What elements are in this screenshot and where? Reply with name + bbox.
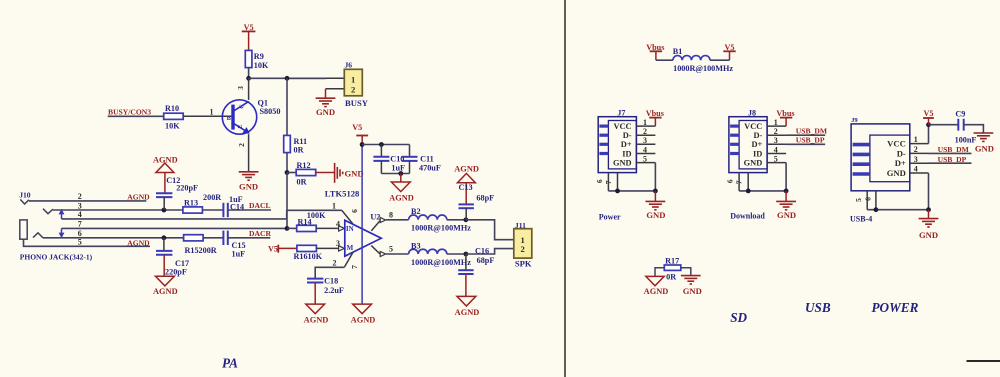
svg-text:R13: R13 — [184, 198, 198, 207]
svg-text:6: 6 — [595, 179, 604, 183]
connector J6 — [344, 69, 362, 96]
svg-text:V5: V5 — [724, 43, 734, 52]
svg-text:M: M — [347, 244, 354, 252]
power port V5 at B1 — [729, 51, 731, 60]
transistor Q1 S8050 — [222, 100, 256, 134]
svg-text:GND: GND — [683, 286, 702, 296]
svg-text:68pF: 68pF — [477, 256, 495, 265]
svg-text:D-: D- — [753, 131, 762, 140]
svg-text:GND: GND — [777, 210, 796, 220]
svg-text:AGND: AGND — [454, 165, 479, 174]
svg-text:2: 2 — [237, 143, 246, 147]
svg-text:J9: J9 — [851, 117, 858, 124]
wire pin 5 to B3 — [386, 253, 409, 255]
svg-text:J8: J8 — [748, 109, 756, 118]
node junction AGND tap — [398, 171, 403, 176]
pin 2 lead of U2 — [344, 253, 353, 268]
svg-text:USB_DP: USB_DP — [938, 155, 967, 164]
node junction C13/B2 — [464, 217, 469, 222]
pin 2 stub of J6 — [326, 88, 345, 90]
svg-text:1: 1 — [332, 201, 336, 210]
svg-text:5: 5 — [389, 245, 393, 254]
wire J8 pin 5 down to rail — [785, 163, 787, 191]
wire R10 to Q1 base — [183, 115, 232, 117]
wire V5 down through amp pin6 pin7 — [361, 145, 363, 304]
pins 1-5 of J8 — [767, 125, 786, 127]
wire J9 bottom rail — [867, 209, 928, 211]
svg-text:AGND: AGND — [153, 287, 178, 296]
svg-text:2: 2 — [78, 192, 82, 201]
svg-text:Download: Download — [730, 211, 765, 220]
wire R17 to AGND — [655, 268, 664, 277]
svg-text:3: 3 — [914, 155, 918, 164]
wire Q1 emitter down to ground — [248, 134, 250, 171]
svg-text:VCC: VCC — [887, 139, 906, 149]
wire USB_DP J9 pin 3 — [929, 162, 972, 164]
svg-text:5: 5 — [854, 198, 863, 202]
wire jack pin 4 to amp pin1 corner — [62, 218, 287, 220]
svg-text:AGND: AGND — [455, 308, 480, 317]
node junction V5/C9 — [926, 122, 931, 127]
wire Q1 collector to node — [248, 78, 250, 100]
svg-text:D+: D+ — [621, 140, 632, 149]
svg-text:R10: R10 — [165, 104, 179, 113]
jack contact pin 2 — [20, 199, 29, 204]
svg-text:GND: GND — [316, 107, 335, 117]
power port AGND below C17 — [156, 276, 175, 286]
svg-text:LTK5128: LTK5128 — [325, 189, 360, 199]
wire C9 to GND — [964, 125, 984, 133]
output lead pin 8 of U2 — [371, 221, 380, 231]
input marker pin 4 — [339, 226, 345, 231]
resistor R16 — [297, 245, 317, 251]
svg-text:B3: B3 — [411, 241, 421, 250]
ground GND at R17 — [681, 275, 701, 277]
connector J8 inner box — [739, 121, 767, 169]
pin 1 lead of U2 — [342, 210, 353, 224]
node junction C12 on line 3 — [162, 208, 167, 213]
svg-text:1000R@100MHz: 1000R@100MHz — [411, 224, 471, 233]
wire jack pin 7 to R14 node — [62, 227, 288, 229]
wire B3 to junction — [447, 253, 466, 255]
svg-text:200R: 200R — [199, 246, 217, 255]
svg-text:GND: GND — [613, 159, 632, 168]
wire R17 to GND — [681, 268, 691, 276]
node junction R11 branch — [285, 76, 290, 81]
wire C17 to AGND — [163, 255, 165, 276]
svg-text:DACL: DACL — [249, 201, 271, 210]
pin 6 of J7 — [607, 173, 609, 191]
power port AGND below C16 — [457, 296, 476, 306]
wire J8 bottom rail — [739, 190, 786, 192]
svg-text:8: 8 — [389, 210, 393, 219]
svg-text:2: 2 — [643, 127, 647, 136]
wire jack pin 3 to R13 — [53, 209, 183, 211]
wire junction to J11 pin 1 — [466, 220, 514, 240]
svg-text:6: 6 — [864, 197, 873, 201]
svg-text:C11: C11 — [420, 155, 434, 164]
svg-text:D+: D+ — [895, 158, 906, 168]
capacitor C16 — [465, 254, 467, 270]
svg-text:220pF: 220pF — [165, 268, 187, 277]
wire J9 pin 1 up to V5 node — [928, 125, 930, 144]
wire J7 pin 5 down to rail — [654, 163, 656, 191]
svg-text:4: 4 — [914, 165, 918, 174]
svg-text:B2: B2 — [411, 207, 421, 216]
pin 6 of J8 — [738, 173, 740, 191]
wire J7 bottom rail — [608, 190, 655, 192]
svg-text:USB-4: USB-4 — [850, 214, 872, 223]
svg-text:USB_DM: USB_DM — [938, 145, 969, 154]
svg-text:IN: IN — [346, 225, 354, 233]
svg-text:C13: C13 — [459, 183, 473, 192]
svg-text:1: 1 — [210, 108, 214, 117]
svg-text:AGND: AGND — [304, 316, 329, 325]
svg-text:10K: 10K — [254, 61, 269, 70]
svg-text:C16: C16 — [475, 246, 489, 255]
wire R14 to amp IN — [316, 227, 338, 229]
ferrite bead B1 — [673, 56, 710, 61]
svg-text:1: 1 — [774, 118, 778, 127]
wire C15 to DACR stub — [228, 237, 270, 239]
wire R15 to C15 — [203, 237, 223, 239]
ground GND at J6 pin2 — [325, 89, 327, 98]
wire C10 C11 bottom rail — [381, 173, 409, 175]
svg-text:V5: V5 — [923, 109, 933, 118]
svg-text:AGND: AGND — [389, 193, 414, 202]
ground GND below J8 — [785, 191, 787, 201]
ferrite bead B3 — [409, 249, 447, 254]
connector J8 outer box — [729, 117, 767, 173]
wire R12 to GND port — [316, 172, 335, 174]
connector J9 tabs — [853, 143, 870, 147]
wire USB_DP J8 pin 3 — [786, 143, 825, 145]
capacitor C10 — [380, 145, 382, 157]
svg-text:1000R@100MHz: 1000R@100MHz — [673, 64, 733, 73]
wire rail to AGND — [400, 174, 402, 183]
power port AGND at R17 — [646, 276, 664, 285]
svg-text:4: 4 — [643, 145, 647, 154]
svg-text:5: 5 — [78, 238, 82, 247]
wire node to R12 — [287, 172, 296, 174]
capacitor C15 — [222, 231, 224, 245]
svg-text:AGND: AGND — [127, 192, 150, 201]
svg-text:C18: C18 — [324, 276, 338, 285]
resistor R9 — [245, 50, 252, 67]
node junction R11/R12 — [285, 170, 290, 175]
svg-text:1: 1 — [643, 118, 647, 127]
svg-text:100nF: 100nF — [955, 136, 977, 145]
ferrite bead B2 — [409, 215, 447, 220]
capacitor C14 — [222, 203, 224, 217]
svg-text:J11: J11 — [515, 221, 526, 230]
connector J7 inner box — [608, 121, 636, 169]
svg-text:AGND: AGND — [127, 239, 150, 248]
svg-text:7: 7 — [350, 265, 359, 269]
wire R13 to C14 — [202, 209, 223, 211]
wire USB_DM J9 pin 2 — [929, 152, 972, 154]
resistor R14 — [287, 227, 297, 229]
svg-text:E: E — [237, 124, 244, 128]
svg-text:68pF: 68pF — [476, 193, 494, 202]
connector J7 tabs — [599, 124, 608, 127]
capacitor C12 — [156, 192, 172, 194]
svg-text:GND: GND — [887, 168, 906, 178]
wire pin 8 to B2 — [386, 219, 409, 221]
svg-text:R15: R15 — [185, 246, 199, 255]
power port V5 at J9 — [928, 118, 930, 125]
wire C14 to DACL stub — [228, 209, 271, 211]
svg-text:USB: USB — [805, 300, 831, 315]
svg-text:3: 3 — [643, 136, 647, 145]
node junction V5 rail — [360, 142, 365, 147]
svg-text:1uF: 1uF — [232, 250, 246, 259]
svg-text:6: 6 — [350, 209, 359, 213]
ground GND sideways port — [334, 163, 336, 183]
svg-text:S8050: S8050 — [260, 107, 281, 116]
svg-text:C: C — [239, 104, 246, 108]
svg-text:V5: V5 — [352, 123, 362, 132]
svg-text:R14: R14 — [298, 217, 312, 226]
svg-text:10K: 10K — [165, 121, 180, 130]
svg-text:POWER: POWER — [872, 300, 919, 315]
svg-text:R16: R16 — [294, 252, 308, 261]
resistor R12 — [296, 169, 316, 175]
pin 7 of J8 — [747, 173, 749, 191]
svg-text:J7: J7 — [617, 109, 625, 118]
svg-text:J10: J10 — [19, 190, 31, 199]
svg-text:5: 5 — [643, 154, 647, 163]
svg-text:AGND: AGND — [644, 287, 669, 296]
svg-text:U2: U2 — [370, 212, 380, 221]
svg-text:PHONO JACK(342-1): PHONO JACK(342-1) — [20, 252, 93, 261]
power port AGND below C10 C11 — [391, 182, 410, 192]
svg-text:7: 7 — [78, 220, 82, 229]
wire sleeve to pin 5 line — [24, 239, 151, 246]
svg-text:PA: PA — [222, 356, 238, 371]
capacitor C18 — [307, 278, 323, 280]
svg-text:1: 1 — [351, 74, 355, 84]
svg-text:D+: D+ — [751, 140, 762, 149]
wire pin 2 to C18 — [315, 267, 344, 278]
svg-text:GND: GND — [239, 182, 258, 192]
svg-text:USB_DP: USB_DP — [796, 136, 825, 145]
wire corner up to amp pin 1 level — [286, 210, 288, 219]
svg-text:3: 3 — [774, 136, 778, 145]
svg-text:C9: C9 — [955, 109, 965, 118]
svg-text:Power: Power — [599, 212, 621, 221]
svg-text:2: 2 — [520, 244, 524, 254]
wire B2 to junction — [447, 219, 466, 221]
node junction C10 top — [379, 142, 384, 147]
svg-text:2: 2 — [333, 258, 337, 267]
wire C12 to line 3 — [163, 197, 165, 210]
wire node down to R11 — [286, 78, 288, 135]
resistor R13 — [183, 207, 203, 213]
svg-text:2: 2 — [914, 145, 918, 154]
wire jack pin 6 to R15 — [43, 237, 184, 239]
svg-text:ID: ID — [622, 149, 631, 158]
connector J7 outer box — [598, 117, 636, 173]
svg-text:BUSY: BUSY — [345, 98, 369, 108]
svg-text:5: 5 — [774, 154, 778, 163]
resistor R11 — [284, 135, 291, 152]
jack contact pin 3 — [43, 209, 53, 214]
svg-text:3: 3 — [78, 201, 82, 210]
pin 7 of J7 — [617, 173, 619, 191]
svg-text:D-: D- — [623, 131, 632, 140]
wire B1 to V5 — [710, 59, 730, 61]
pin 6 of J9 — [875, 191, 877, 210]
wire jack pin 2 AGND stub — [29, 200, 146, 202]
svg-text:B1: B1 — [673, 47, 683, 56]
svg-text:200R: 200R — [203, 193, 221, 202]
wire node to J6 pin 1 — [249, 77, 326, 79]
svg-text:BUSY/CON3: BUSY/CON3 — [108, 107, 151, 116]
svg-text:3: 3 — [236, 86, 245, 90]
svg-text:1: 1 — [914, 135, 918, 144]
output lead pin 5 of U2 — [371, 246, 380, 254]
svg-text:GND: GND — [345, 169, 364, 179]
svg-text:1uF: 1uF — [391, 164, 405, 173]
wire BUSY/CON3 to R10 — [108, 115, 164, 117]
svg-text:GND: GND — [975, 143, 994, 153]
svg-text:R12: R12 — [297, 161, 311, 170]
input marker pin 3 — [339, 246, 345, 251]
wire Vbus to B1 — [656, 59, 673, 61]
ground GND right of C9 — [974, 132, 994, 134]
ground GND below Q1 — [239, 171, 259, 173]
svg-text:0R: 0R — [297, 177, 307, 186]
svg-text:1000R@100MHz: 1000R@100MHz — [411, 258, 471, 267]
power port AGND below pin 7 — [353, 304, 372, 314]
svg-text:SD: SD — [730, 310, 747, 325]
svg-text:7: 7 — [604, 180, 613, 184]
connector J8 tabs — [730, 124, 739, 127]
svg-text:VCC: VCC — [744, 122, 762, 131]
connector J9 inner box — [870, 135, 910, 182]
wire R9 to node — [248, 68, 250, 79]
svg-text:220pF: 220pF — [176, 184, 198, 193]
pins 1-4 of J9 — [910, 143, 929, 145]
wire J9 pin 4 down to rail — [928, 173, 930, 210]
power port AGND below C18 — [306, 304, 325, 314]
connector J9 outer box — [851, 124, 910, 191]
capacitor C11 — [409, 145, 411, 157]
wire C18 to AGND — [314, 283, 316, 305]
svg-text:R9: R9 — [254, 52, 264, 61]
svg-text:GND: GND — [919, 230, 938, 240]
wire USB_DM J8 pin 2 — [786, 134, 825, 136]
svg-text:6: 6 — [726, 179, 735, 183]
wire R16 to amp M — [316, 247, 338, 249]
svg-text:VCC: VCC — [613, 122, 631, 131]
node junction line7/R11 branch/R14 — [285, 226, 290, 231]
ground GND below J7 — [654, 191, 656, 201]
pin 5 of J9 — [866, 191, 868, 210]
wire V5 node to C9 — [929, 124, 959, 126]
svg-text:J6: J6 — [345, 61, 353, 70]
jack sleeve — [20, 220, 27, 239]
wire V5 rail to C10 C11 — [362, 144, 409, 146]
svg-text:V5: V5 — [268, 245, 278, 254]
pin 1 stub of J6 — [326, 77, 344, 79]
svg-text:D-: D- — [897, 148, 906, 158]
svg-text:10K: 10K — [308, 252, 323, 261]
svg-text:AGND: AGND — [351, 316, 376, 325]
section divider line — [564, 0, 566, 377]
connector J11 — [514, 229, 532, 258]
resistor R10 — [164, 113, 184, 119]
node junction C17 on line 6 — [162, 235, 167, 240]
node junction C16/B3 — [464, 252, 469, 257]
svg-text:0R: 0R — [294, 145, 304, 154]
svg-text:SPK: SPK — [515, 259, 532, 269]
svg-text:2: 2 — [351, 85, 355, 95]
svg-text:V5: V5 — [244, 23, 254, 32]
svg-text:7: 7 — [735, 180, 744, 184]
svg-text:GND: GND — [646, 210, 665, 220]
svg-text:0R: 0R — [666, 272, 676, 281]
node junction R9/Q1/J6 — [246, 76, 251, 81]
svg-text:470uF: 470uF — [419, 164, 441, 173]
capacitor C9 — [957, 119, 959, 131]
svg-text:R17: R17 — [665, 256, 679, 265]
svg-text:4: 4 — [78, 210, 82, 219]
jack contact pin 6 — [33, 233, 43, 238]
wire R11 to node — [286, 153, 288, 173]
op-amp U2 LTK5128 triangle — [345, 220, 382, 256]
capacitor C13 — [465, 183, 467, 204]
svg-text:DACR: DACR — [249, 229, 271, 238]
wire node down to jack line7 — [286, 173, 288, 229]
capacitor C17 — [163, 238, 165, 251]
jack tip arrow pin 4 — [61, 213, 63, 219]
svg-text:B: B — [227, 115, 232, 122]
title block border line — [967, 360, 1000, 362]
svg-text:4: 4 — [774, 145, 778, 154]
svg-text:2: 2 — [774, 127, 778, 136]
ground GND below J9 — [928, 210, 930, 219]
svg-text:USB_DM: USB_DM — [796, 127, 827, 136]
jack ring arrow pin 7 to 6 — [61, 228, 63, 235]
pins 1-5 of J7 — [636, 125, 655, 127]
svg-text:GND: GND — [744, 159, 763, 168]
svg-text:ID: ID — [753, 149, 762, 158]
svg-text:2.2uF: 2.2uF — [324, 286, 344, 295]
wire junction to J11 pin 2 — [466, 249, 514, 254]
resistor R15 — [184, 235, 204, 241]
